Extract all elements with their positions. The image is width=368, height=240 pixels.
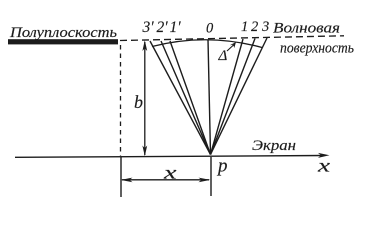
screen line [15,156,324,158]
x dimension right arrowhead [199,178,211,183]
fan line P-2' [161,41,211,155]
half-plane bar [8,39,118,44]
fan line P-O central [208,40,211,155]
dashed vertical below half-plane edge [120,45,122,156]
wave surface dashed line [120,36,344,41]
svg-text:Δ: Δ [218,48,228,64]
svg-text:3: 3 [261,19,269,35]
svg-text:2′: 2′ [157,19,169,36]
svg-text:1′: 1′ [170,19,182,36]
svg-text:b: b [134,92,143,112]
svg-text:x: x [317,156,331,176]
svg-text:p: p [216,156,228,177]
fan line P-3 [211,38,268,155]
fan line P-1' [170,41,211,155]
screen axis arrowhead [318,153,330,158]
vertical line below P [210,157,212,196]
svg-text:3′: 3′ [142,19,155,36]
vertical segment below screen at edge [120,157,122,197]
x dimension left arrowhead [121,178,133,183]
fan line P-2 [211,39,256,155]
svg-text:2: 2 [251,19,258,35]
svg-text:Волновая: Волновая [273,21,340,37]
b dimension top arrowhead [142,40,147,51]
svg-text:0: 0 [206,21,214,37]
fan line P-3' [150,41,211,155]
svg-text:1: 1 [241,19,248,35]
b dimension line [144,42,146,155]
svg-text:Экран: Экран [252,138,296,154]
b dimension bottom arrowhead [142,146,147,157]
x dimension line [122,179,209,181]
svg-text:поверхность: поверхность [280,41,354,57]
spherical wavefront arc [152,40,262,48]
Delta pointer arrow [227,45,234,51]
svg-text:x: x [162,163,176,183]
fan line P-1 [211,39,244,155]
svg-text:Полуплоскость: Полуплоскость [9,25,118,41]
Delta pointer arrowhead [230,42,236,48]
